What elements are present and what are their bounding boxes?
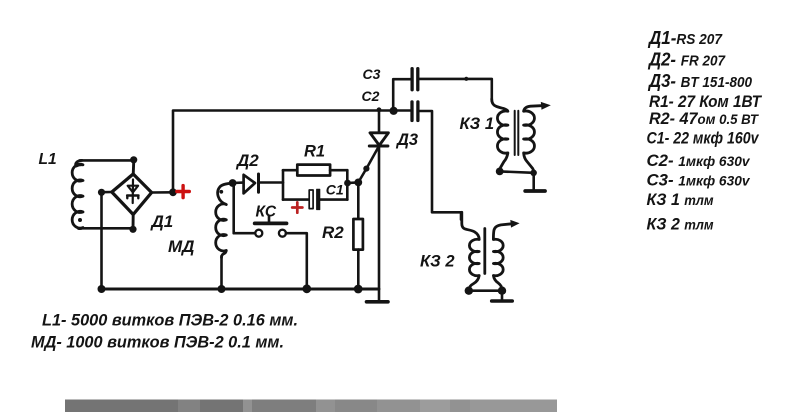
wire KZ1 ground stem [532, 173, 535, 190]
RC loop top wire right [330, 169, 347, 172]
diode D2 cathode bar [257, 174, 260, 192]
transformer KZ2 primary coil [462, 212, 479, 289]
svg-text:C3- 1мкф 630v: C3- 1мкф 630v [647, 172, 752, 190]
node L1 winding dot [78, 218, 82, 222]
RC loop bottom wire left [283, 198, 309, 201]
node KZ2 bottom right [498, 287, 506, 295]
svg-text:R2: R2 [322, 223, 344, 242]
transformer KZ2 secondary coil [493, 224, 512, 290]
wire KC right to rail [286, 233, 307, 289]
thyristor D3 anode wire [378, 111, 381, 132]
node MD winding dot [219, 190, 223, 194]
svg-text:Д2: Д2 [235, 151, 259, 170]
switch KC actuator bar [255, 221, 287, 225]
bridge inner diode triangle [128, 186, 138, 193]
thyristor D3 cathode wire to ground [378, 146, 381, 301]
resistor R2 body [353, 219, 363, 250]
wire C3 to KZ1 [418, 79, 491, 101]
wire C2 to KZ2 [419, 111, 461, 220]
svg-text:R2- 47ом 0.5 ВТ: R2- 47ом 0.5 ВТ [649, 110, 760, 128]
node rail left [98, 285, 106, 293]
RC loop left vertical [282, 170, 285, 199]
svg-text:C2: C2 [362, 88, 380, 104]
node MD bottom [218, 285, 226, 293]
capacitor C2 right plate [416, 102, 419, 121]
node MD top [229, 179, 237, 187]
svg-text:КЗ 1: КЗ 1 [460, 115, 495, 133]
wire bottom rail [102, 288, 380, 291]
node KZ1 bottom left [496, 168, 504, 176]
KZ1 arrowhead [541, 102, 551, 110]
node gate bend [363, 166, 369, 172]
bridge bottom stub [132, 214, 135, 231]
svg-text:C2- 1мкф 630v: C2- 1мкф 630v [647, 152, 752, 170]
svg-text:КС: КС [256, 204, 277, 221]
wire MD bottom to rail [220, 256, 223, 289]
capacitor C1 positive plate [317, 189, 320, 209]
KZ2 arrowhead [510, 220, 519, 228]
transformer MD primary coil [216, 183, 233, 257]
svg-text:L1: L1 [39, 151, 57, 168]
bottom bar [65, 400, 557, 412]
bridge inner diode cathode bar [127, 196, 138, 199]
node C3 wire tick [464, 77, 468, 81]
svg-text:КЗ 2 тлм: КЗ 2 тлм [647, 216, 714, 234]
node bridge left [98, 189, 105, 196]
wire D2 cathode to RC loop [259, 181, 284, 184]
node bridge bottom [129, 226, 136, 233]
thyristor D3 triangle [370, 133, 388, 146]
svg-text:C1- 22 мкф 160v: C1- 22 мкф 160v [647, 130, 760, 148]
node KC bottom [302, 284, 311, 293]
bridge top stub [132, 160, 136, 176]
svg-text:C3: C3 [363, 66, 381, 82]
capacitor C1 negative plate [309, 190, 313, 209]
node plus [169, 188, 177, 196]
svg-text:R1: R1 [304, 143, 325, 161]
ground KZ1 bar [525, 189, 545, 193]
wire KZ2 bottom [469, 289, 502, 292]
node C3 branch [390, 107, 398, 115]
wire gate stub [347, 181, 358, 184]
node KZ2 bottom left [465, 287, 473, 295]
node gate [354, 179, 362, 187]
svg-text:КЗ 2: КЗ 2 [420, 253, 455, 271]
bridge inner diode lead [132, 180, 135, 204]
svg-text:МД: МД [168, 237, 194, 256]
transformer KZ1 primary coil [492, 99, 508, 171]
node bridge top [130, 156, 137, 163]
capacitor C2 left plate [410, 102, 413, 121]
inductor L1 [72, 160, 83, 228]
transformer KZ1 secondary coil [524, 106, 541, 172]
svg-text:МД- 1000 витков ПЭВ-2 0.1 мм.: МД- 1000 витков ПЭВ-2 0.1 мм. [31, 334, 284, 352]
capacitor C3 right plate [416, 69, 419, 90]
diode D2 triangle [244, 175, 255, 194]
ground main bar [367, 300, 389, 304]
wire L1 bottom to bridge bottom [78, 227, 133, 230]
node R2 bottom [354, 285, 363, 294]
wire KC left vertical [234, 183, 256, 233]
svg-text:Д1: Д1 [150, 212, 174, 231]
wire bridge left corner stub [102, 191, 112, 194]
ground KZ2 bar [492, 299, 513, 303]
thyristor D3 cathode bar [369, 145, 388, 148]
wire L1 top to bridge top [80, 159, 135, 162]
RC loop top wire left [283, 169, 297, 172]
wire KZ2 ground stem [501, 291, 504, 300]
KZ1 core bars [515, 111, 519, 155]
svg-text:КЗ 1 тлм: КЗ 1 тлм [647, 191, 714, 209]
RC loop right vertical [346, 170, 349, 199]
switch KC contacts [255, 230, 262, 237]
svg-text:Д3- BT 151-800: Д3- BT 151-800 [647, 71, 752, 91]
node RC right [344, 180, 351, 187]
switch KC stem [268, 216, 271, 222]
KZ2 core bar [483, 229, 486, 274]
resistor R1 body [297, 165, 330, 176]
wire left vertical to bottom rail [100, 192, 103, 289]
node KZ1 bottom right [530, 170, 537, 177]
RC loop bottom wire right [320, 198, 348, 201]
wire gate diagonal [358, 147, 378, 183]
plus sign at bridge output [177, 186, 190, 198]
wire bridge right corner to + node [152, 191, 173, 194]
wire R2 top vertical [357, 182, 360, 219]
svg-text:Д1-RS 207: Д1-RS 207 [647, 28, 723, 48]
svg-text:L1- 5000 витков ПЭВ-2 0.16 м: L1- 5000 витков ПЭВ-2 0.16 мм. [42, 312, 298, 330]
wire KZ1 bottom [500, 171, 534, 172]
wire R2 bottom vertical [357, 250, 360, 289]
capacitor C3 left plate [410, 69, 413, 90]
wire top rail from + node to C2 [173, 111, 410, 193]
plus sign at C1 [292, 202, 302, 212]
svg-text:R1- 27 Ком 1ВТ: R1- 27 Ком 1ВТ [649, 93, 763, 111]
bridge rectifier D1 diamond [112, 174, 152, 215]
svg-text:Д3: Д3 [395, 131, 418, 149]
svg-text:C1: C1 [326, 182, 344, 198]
node thyristor anode [377, 107, 382, 112]
wire C3 branch vertical [393, 79, 410, 110]
wire MD top to D2 anode [233, 181, 243, 184]
svg-text:Д2- FR 207: Д2- FR 207 [647, 50, 726, 70]
